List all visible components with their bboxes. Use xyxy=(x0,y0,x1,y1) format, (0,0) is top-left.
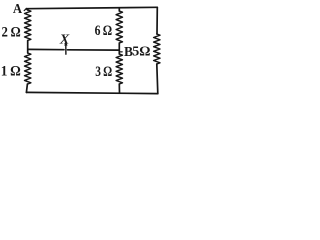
svg-text:X: X xyxy=(59,33,70,48)
wire middle horizontal right of X xyxy=(68,49,120,51)
resistor R5 5ohm xyxy=(154,34,160,64)
wire left-bottom stub xyxy=(26,84,27,92)
resistor R1 1ohm xyxy=(25,53,31,84)
node B tick xyxy=(120,51,123,53)
svg-text:3 Ω: 3 Ω xyxy=(95,64,112,80)
wire middle-branch mid (node B) xyxy=(118,43,120,54)
wire middle-branch bottom stub xyxy=(118,84,120,93)
svg-text:5Ω: 5Ω xyxy=(132,45,150,60)
wire bottom xyxy=(26,92,157,93)
wire X marker shaft xyxy=(65,45,67,54)
resistor R6 6ohm xyxy=(116,11,122,43)
wire left-top stub xyxy=(26,9,27,10)
wire right-bottom xyxy=(157,64,158,94)
wire X marker arrowhead xyxy=(64,41,67,46)
wire middle horizontal left of X xyxy=(28,48,64,50)
resistor R2 2ohm xyxy=(25,10,31,41)
wire middle-branch top stub xyxy=(118,8,120,11)
svg-text:6 Ω: 6 Ω xyxy=(95,23,113,39)
node A corner tick xyxy=(24,9,26,11)
wire left mid (node junction) xyxy=(27,41,29,54)
svg-text:1 Ω: 1 Ω xyxy=(1,63,21,79)
svg-text:A: A xyxy=(13,2,23,17)
resistor R3 3ohm xyxy=(116,54,122,84)
svg-text:2 Ω: 2 Ω xyxy=(2,24,21,40)
wire top xyxy=(26,7,157,8)
wire right-top xyxy=(156,7,158,34)
